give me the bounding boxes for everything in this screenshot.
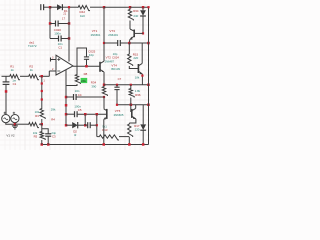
node vm-1b [65,104,68,107]
wire (feedback riser) [77,48,87,66]
node l-1 [41,82,43,84]
node b-3 [103,143,106,146]
svg-text:29k: 29k [51,107,56,111]
svg-text:10p: 10p [89,53,94,57]
node in-1 [41,75,44,78]
svg-text:R5: R5 [34,135,38,139]
node snub-1 [49,22,52,25]
node vm-2 [65,113,68,116]
op-amp - mark [57,70,60,72]
capacitor C3 [42,129,48,134]
node top-D [68,6,70,8]
svg-text:120: 120 [135,128,140,132]
wire [15,123,28,125]
capacitor C4 [66,96,74,98]
node w104-a [116,104,118,106]
svg-text:R3: R3 [35,114,39,118]
node c1-b [5,90,8,93]
svg-text:C7: C7 [118,77,122,81]
capacitor C7 (input coupling, top-left) [40,4,42,10]
capacitor C1 [5,76,7,82]
svg-text:C1: C1 [58,46,62,50]
node vm-1 [65,96,68,99]
node w84-c [147,84,150,87]
node top-B [103,6,106,9]
diode D3 [142,7,144,10]
diode D2 [66,124,72,126]
wire [5,114,7,116]
svg-text:C3: C3 [52,135,56,139]
capacitor C6 [116,85,118,87]
wire [39,75,49,77]
resistor R34 [128,8,133,20]
svg-text:24k: 24k [81,79,86,83]
op-amp non-inverting input lead [50,58,52,62]
node b-1 [41,143,44,146]
wire [104,84,149,86]
capacitor C020 [50,23,56,25]
svg-text:2N6661: 2N6661 [91,33,101,37]
source V2 [11,115,19,123]
wire (bottom rail) [42,144,149,146]
resistor R5 [41,124,43,130]
resistor R10 [102,86,107,97]
node c5-b [96,113,99,116]
svg-text:R34: R34 [133,9,139,13]
svg-text:1k: 1k [30,68,34,72]
wire [14,123,16,126]
svg-text:C5: C5 [78,108,82,112]
diode D4 [142,105,144,125]
wire [20,75,28,77]
wire y=104.8 [117,104,149,106]
node vm-3 [65,124,68,127]
svg-text:1k0: 1k0 [80,14,85,18]
wire (op-amp V- feed) [65,70,67,126]
op-amp da1 [56,55,73,75]
wire (VT3 emitter) [128,40,131,43]
wire (op-amp output) [73,65,100,67]
svg-text:R8: R8 [84,72,88,76]
wire [41,119,43,124]
node w43-c [147,42,150,45]
node gnd-n [14,123,17,126]
resistor R36 [130,85,132,88]
transistor VT5 [106,109,108,119]
node d2-b [96,124,98,126]
resistor R8 [76,66,78,73]
wire (VT6 collector) [135,105,137,109]
wire [129,21,131,30]
grid minor [4,0,6,150]
resistor R15 [128,43,130,53]
node out [85,65,88,68]
resistor R13 [97,136,98,138]
svg-text:C1: C1 [13,82,17,86]
node top-C [129,6,132,9]
node l-3 [41,98,43,100]
wire (VT5 emitter) [103,119,105,144]
wire [129,66,138,69]
node c5-a [84,113,87,116]
node c4-r [103,96,105,98]
wire [90,6,104,8]
node snub-2 [68,22,71,25]
node d2-a [84,124,87,127]
wire (op-amp V+ feed) [68,7,70,61]
svg-text:R36: R36 [135,93,141,97]
node vt4-e [141,75,143,77]
svg-text:R13: R13 [102,128,108,132]
op-amp inverting input lead [49,70,56,72]
node rail-top [147,6,149,8]
svg-text:V1 V2: V1 V2 [6,134,15,138]
transistor VT1 [99,62,101,72]
svg-text:C4: C4 [78,93,82,97]
wire [129,42,148,44]
transistor VT3 [133,30,135,38]
op-amp + mark [57,59,60,61]
wire [66,84,77,86]
node w104-c [147,104,150,107]
wire [104,6,130,8]
transistor VT6 [130,105,132,112]
capacitor C8 [85,124,88,126]
svg-text:R4: R4 [51,117,55,121]
wire [2,75,9,77]
capacitor C025 [84,56,89,58]
capacitor C024 [104,42,118,44]
source V1 + mark [4,112,6,114]
wire (VT1 emitter) [103,72,105,85]
svg-text:VT2: VT2 [106,56,112,60]
svg-text:17: 17 [62,17,66,21]
capacitor C19 [50,38,59,40]
node top-A [49,6,52,9]
source V1 [2,115,10,123]
node w43-a [103,42,105,44]
node w104-b [130,104,133,107]
resistor R17 [128,123,133,137]
resistor R42 [77,5,90,10]
svg-text:18k: 18k [135,76,140,80]
wire [49,7,51,38]
resistor R2 [28,75,40,80]
highlight 24k [81,78,88,83]
svg-text:390: 390 [91,84,96,88]
wire [6,123,15,125]
wire [84,114,86,125]
wire (VT4 emitter) [141,74,143,85]
wire (VT6 emitter) [129,119,136,123]
svg-text:TL072: TL072 [28,44,37,48]
ground [12,125,18,127]
wire [103,96,105,109]
node w84-b [130,84,132,86]
diode D1 [57,4,62,10]
node w43-b [128,42,131,45]
node l-4 [41,123,44,126]
resistor R4 [40,108,45,119]
node e1 [103,84,106,87]
wire (right rail) [148,7,150,144]
wire (VT4 collector) [141,43,143,63]
wire [130,6,149,8]
svg-text:100n: 100n [54,32,61,36]
node b-2 [47,143,50,146]
wire (VT1 collector rail) [103,7,105,61]
wire [96,114,98,136]
grid major [24,0,26,150]
node b-5 [142,143,145,146]
svg-text:2N6401: 2N6401 [108,33,118,37]
node top-E [142,6,145,9]
capacitor C5 [66,113,75,115]
node w84-a [116,84,118,86]
svg-text:240: 240 [133,14,138,18]
svg-text:1k: 1k [11,68,15,72]
transistor VT4 [137,64,139,73]
node b-4 [128,143,131,146]
node snub-3 [68,37,71,40]
resistor R6 [28,123,40,128]
resistor R1 [9,75,21,80]
wire [39,123,42,125]
node d3-b [142,32,144,34]
svg-text:C024: C024 [112,56,119,60]
svg-text:220: 220 [133,56,138,60]
wire [50,6,57,8]
svg-text:BD139: BD139 [111,67,120,71]
wire (left rail) [41,76,43,107]
svg-text:2N6605: 2N6605 [114,113,124,117]
source V2 + mark [13,112,15,114]
node l-2 [41,90,43,92]
